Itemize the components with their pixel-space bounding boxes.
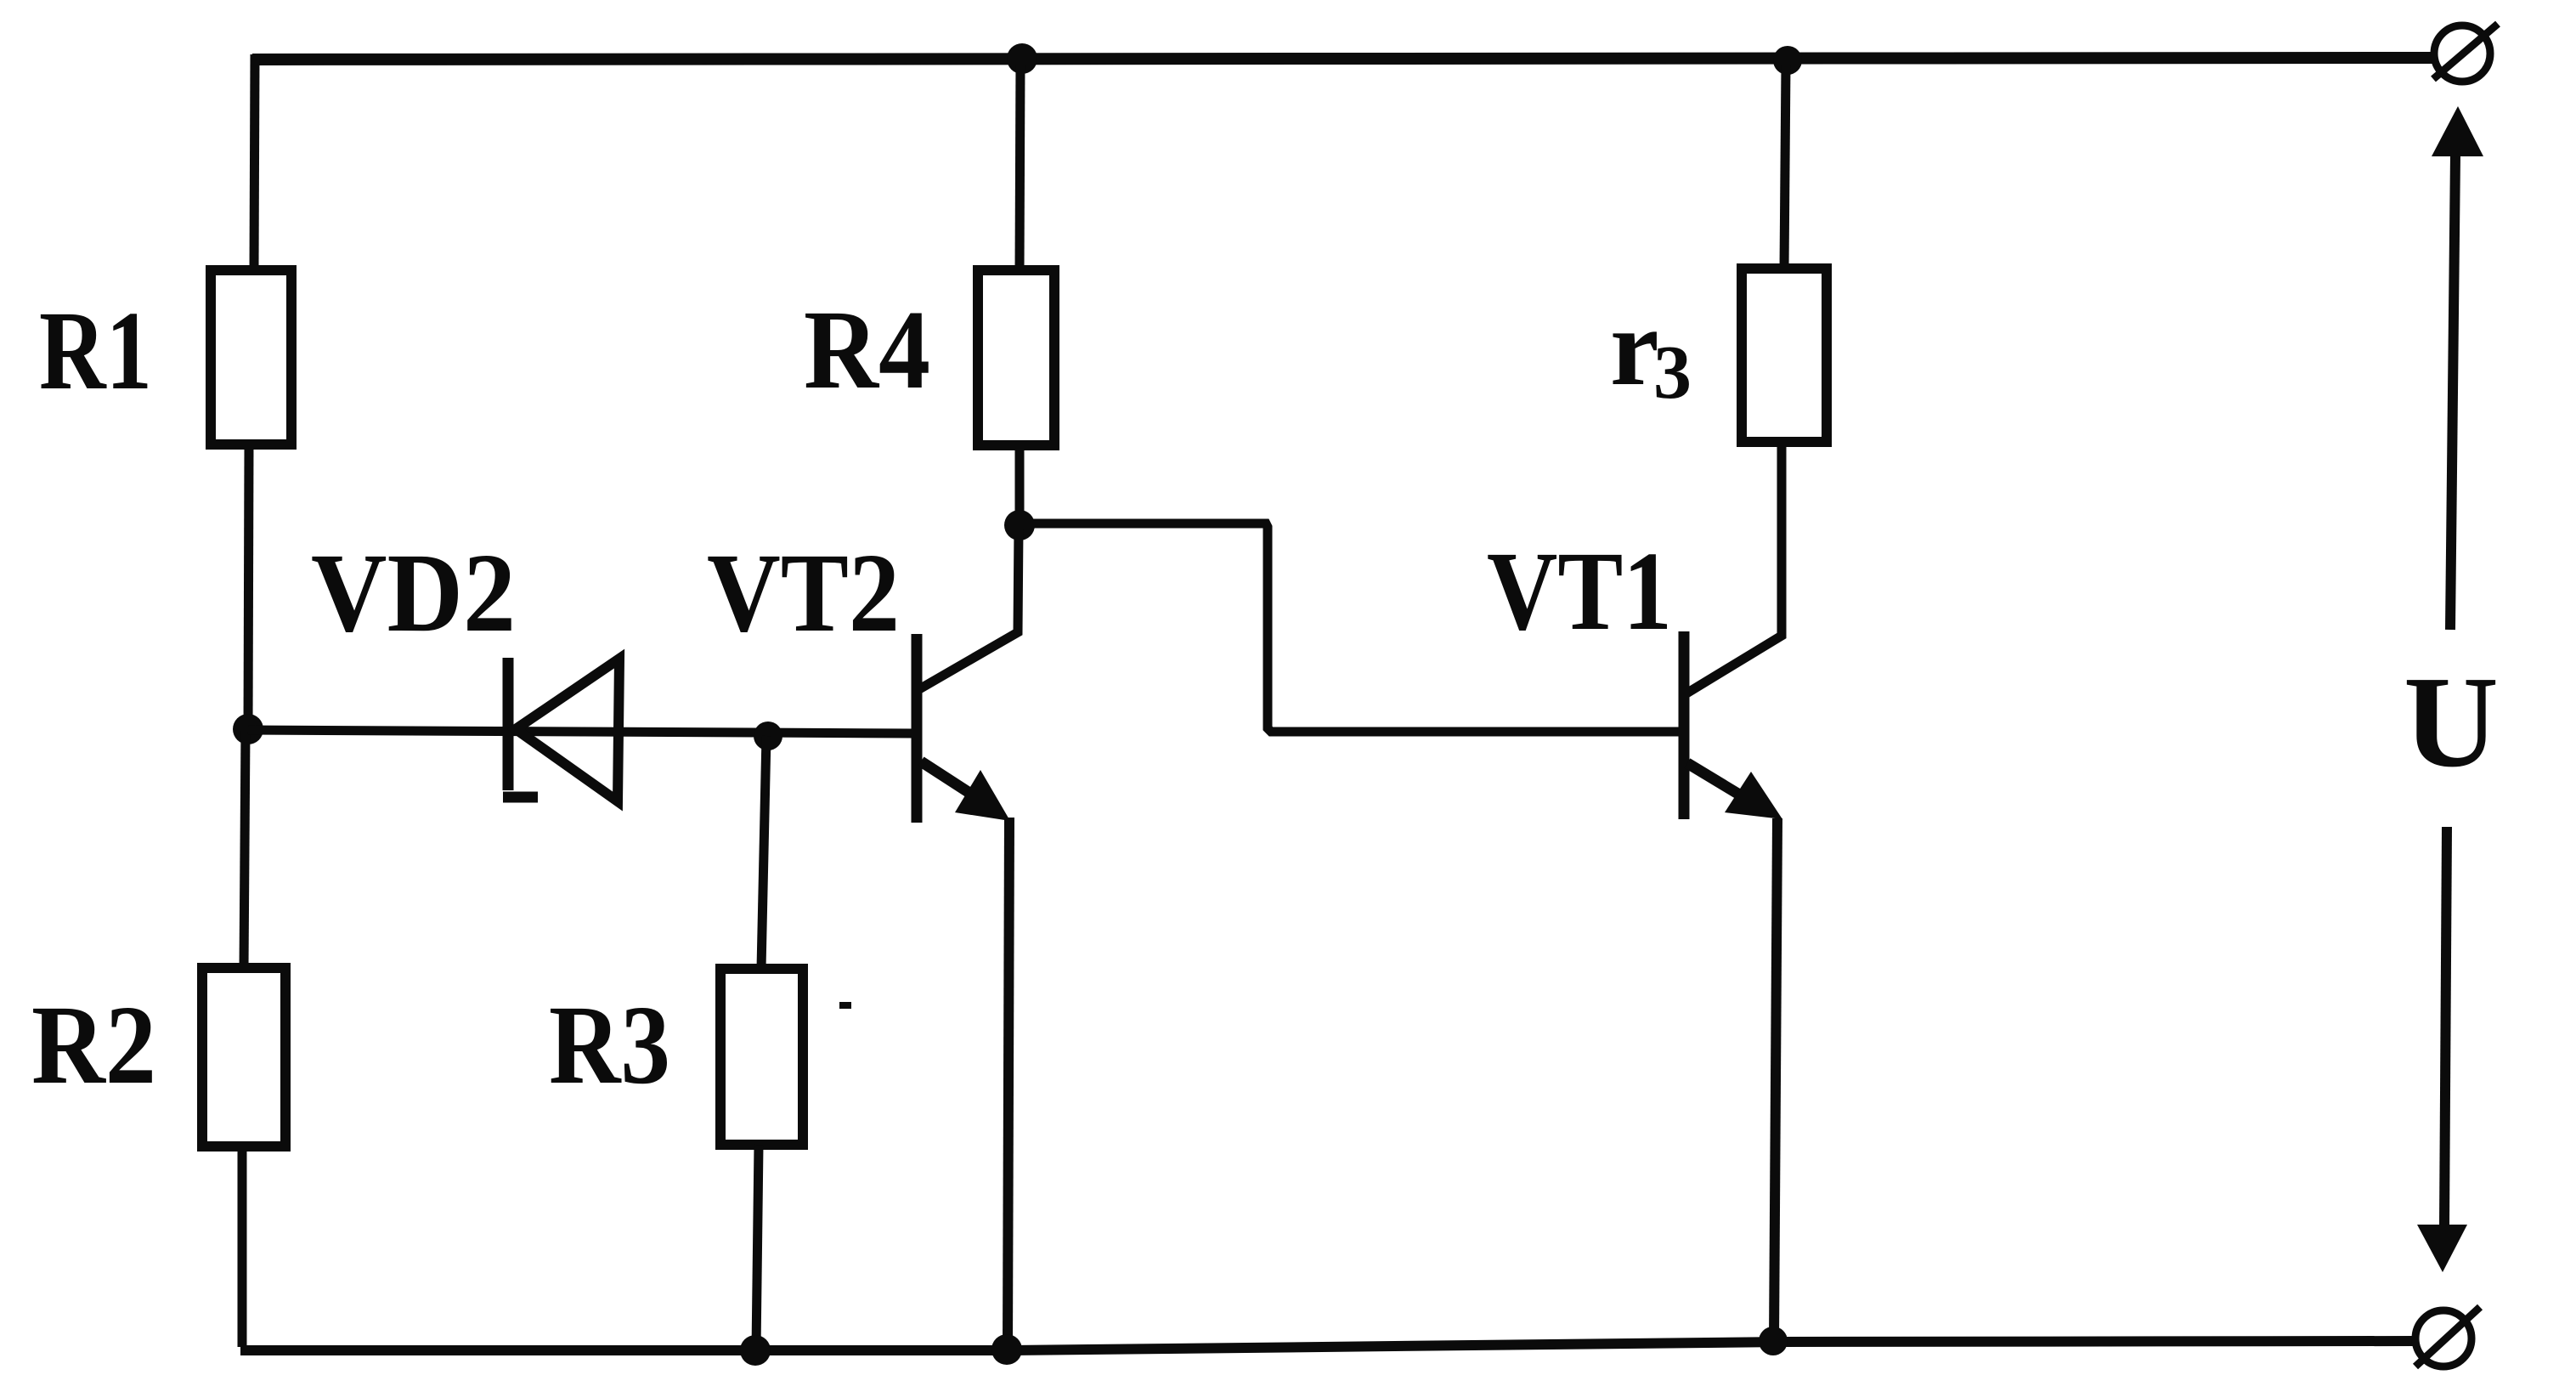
- resistor R2: [202, 968, 285, 1146]
- wire VT2 emitter to bottom rail: [1008, 818, 1009, 1350]
- node F : R4 bottom / VT2 collector junction: [1004, 510, 1035, 540]
- svg-text:VT1: VT1: [1487, 528, 1672, 654]
- wire R1 bottom to node A: [248, 444, 249, 729]
- transistor VT2: [917, 634, 1010, 823]
- wire left vertical from top rail to R1: [254, 54, 255, 270]
- node E : diode / VT2 base / R3 junction: [754, 721, 782, 750]
- svg-text:3: 3: [1653, 331, 1692, 415]
- wire node G to r3: [1784, 64, 1786, 269]
- terminal top right: [2433, 24, 2498, 82]
- wire r3 to VT1 collector: [1686, 442, 1782, 693]
- transistor VT1: [1684, 631, 1782, 819]
- svg-text:R1: R1: [39, 287, 152, 413]
- svg-text:U: U: [2404, 650, 2499, 795]
- node H : top rail / R4 junction: [1007, 43, 1037, 74]
- resistor r3: [1742, 269, 1827, 442]
- node G : top rail / r3 junction: [1773, 46, 1802, 75]
- arrow up of source U: [2432, 106, 2483, 630]
- wire node F to VT2 collector: [919, 527, 1019, 689]
- resistor R3: [720, 969, 803, 1145]
- arrow down of source U: [2417, 827, 2467, 1272]
- node B : R3 at bottom rail: [740, 1335, 771, 1366]
- diode VD2: [503, 658, 619, 801]
- terminal bottom right: [2415, 1307, 2480, 1367]
- wire node F to VT1 base: [1022, 523, 1681, 732]
- svg-text:VT2: VT2: [707, 529, 900, 655]
- wire node A to diode and VT2 base: [248, 730, 913, 733]
- ink speck right of R3: [839, 1002, 851, 1009]
- node D : VT1 emitter at bottom rail: [1759, 1327, 1788, 1355]
- wire VT1 emitter to bottom rail: [1774, 818, 1777, 1341]
- resistor R1: [211, 270, 291, 444]
- svg-text:R2: R2: [31, 982, 156, 1107]
- node A : R1/R2/diode junction: [233, 714, 263, 744]
- svg-text:R4: R4: [804, 286, 930, 412]
- resistor R4: [978, 270, 1054, 445]
- wire bottom rail: [240, 1341, 2414, 1350]
- svg-text:R3: R3: [549, 982, 670, 1107]
- svg-text:r: r: [1610, 286, 1659, 409]
- wire node A to R2: [244, 729, 246, 969]
- node C : VT2 emitter at bottom rail: [991, 1334, 1022, 1365]
- wire top rail: [252, 58, 2432, 59]
- wire node H to R4: [1020, 62, 1020, 272]
- wire R4 bottom to node F: [1015, 445, 1025, 525]
- wire R3 bottom to bottom rail: [756, 1145, 759, 1350]
- wire node E down to R3: [761, 736, 766, 969]
- wire R2 bottom to bottom rail corner: [238, 1146, 247, 1347]
- svg-text:VD2: VD2: [311, 529, 516, 655]
